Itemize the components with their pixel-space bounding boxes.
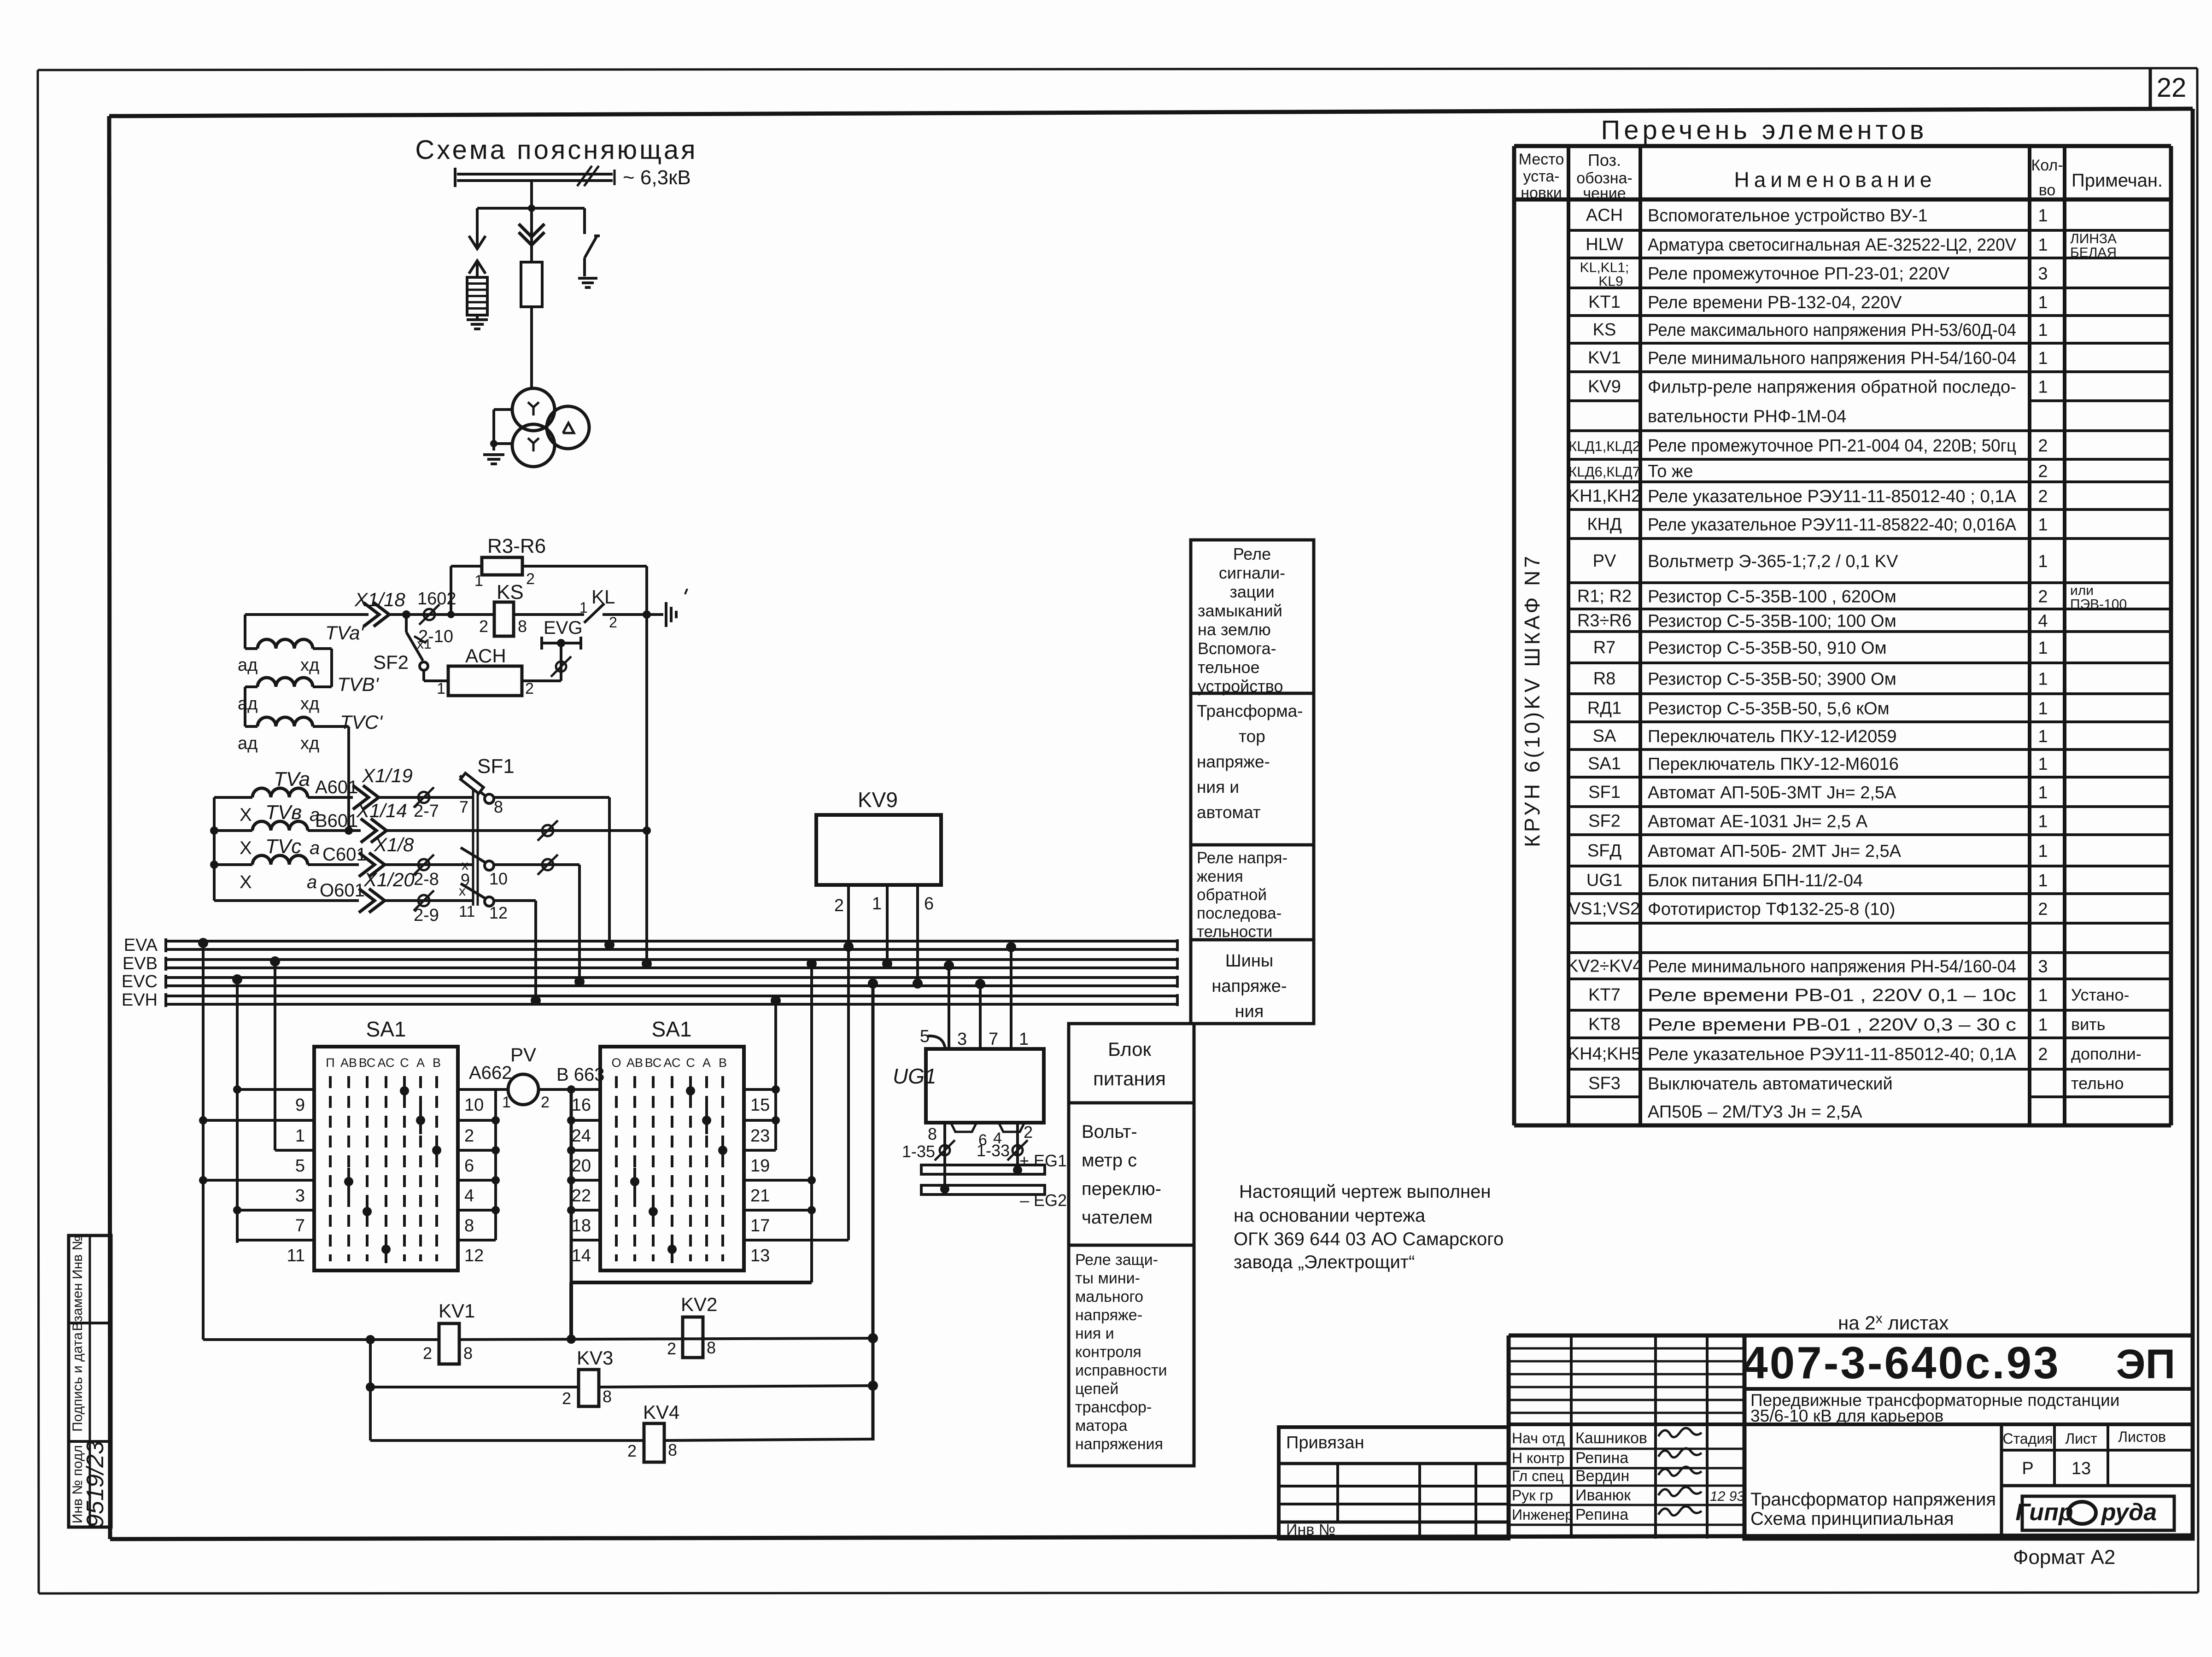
svg-text:вательности РНФ-1М-04: вательности РНФ-1М-04 [1648, 407, 1846, 427]
svg-text:1: 1 [2038, 699, 2048, 719]
svg-text:автомат: автомат [1197, 803, 1261, 822]
svg-text:KS: KS [1593, 320, 1616, 340]
svg-text:Резистор С-5-35В-50, 910 О: Резистор С-5-35В-50, 910 Ом [1648, 638, 1887, 658]
svg-text:х: х [459, 884, 466, 899]
SA1-1 left pins [287, 1095, 305, 1265]
svg-text:ПЭВ-100: ПЭВ-100 [2070, 597, 2127, 612]
svg-text:24: 24 [572, 1126, 591, 1146]
svg-text:8: 8 [603, 1387, 612, 1406]
svg-text:8: 8 [494, 797, 503, 816]
svg-text:Переключатель ПКУ-12-И2059: Переключатель ПКУ-12-И2059 [1648, 727, 1897, 746]
table: headers [1519, 151, 2163, 202]
svg-text:Кашников: Кашников [1575, 1429, 1647, 1447]
wire: transformer neutral to ground [490, 410, 512, 451]
ground (KL, right-facing) [647, 589, 687, 627]
title block: stage/sheet boxes [2001, 1424, 2193, 1539]
svg-text:SF1: SF1 [477, 755, 515, 778]
svg-text:Вспомогательное устройство ВУ: Вспомогательное устройство ВУ-1 [1648, 206, 1928, 226]
connector X1/18 [363, 603, 389, 626]
svg-text:контроля: контроля [1075, 1343, 1141, 1361]
wire: A662 to voltmeter [469, 1063, 512, 1089]
svg-text:KV1: KV1 [1588, 348, 1621, 368]
svg-text:С: С [686, 1056, 695, 1070]
svg-text:Реле максимального напряжения: Реле максимального напряжения РН-53/60Д-… [1648, 321, 2016, 340]
svg-text:23: 23 [750, 1126, 770, 1146]
wire: KV3 row [366, 1381, 878, 1392]
svg-text:21: 21 [750, 1186, 770, 1206]
svg-text:2-7: 2-7 [414, 802, 439, 821]
svg-text:1: 1 [872, 894, 882, 913]
svg-text:2: 2 [541, 1094, 550, 1111]
svg-text:П: П [326, 1056, 334, 1070]
svg-text:1: 1 [2038, 206, 2048, 226]
svg-text:Привязан: Привязан [1286, 1433, 1364, 1452]
svg-text:х1: х1 [417, 637, 432, 652]
svg-text:Трансформатор напряжения: Трансформатор напряжения [1750, 1489, 1996, 1510]
test point 1602 / 2-10 [417, 589, 456, 646]
svg-text:SA1: SA1 [652, 1017, 692, 1041]
svg-text:Реле минимального напряжения Р: Реле минимального напряжения РН-54/160-0… [1648, 349, 2016, 368]
svg-text:KV2: KV2 [681, 1294, 717, 1315]
node: EVA right drop (KV9 pin2 / SA1 pin13) [843, 885, 854, 1240]
svg-text:– EG2: – EG2 [1020, 1191, 1067, 1210]
resistor R3-R6 [474, 535, 546, 590]
table: frame and grid [1514, 146, 2171, 1125]
svg-text:Вердин: Вердин [1575, 1467, 1629, 1485]
svg-text:В: В [719, 1056, 727, 1070]
svg-text:PV: PV [510, 1044, 536, 1066]
busbar 6.3kV [455, 166, 614, 187]
bus EVH [122, 990, 1177, 1010]
svg-text:мального: мального [1075, 1288, 1143, 1306]
svg-text:12 93: 12 93 [1710, 1489, 1744, 1504]
title block: small grid top-left [1509, 1335, 1744, 1539]
svg-text:R1; R2: R1; R2 [1577, 587, 1632, 606]
svg-text:KL9: KL9 [1598, 274, 1623, 289]
svg-text:Переключатель ПКУ-12-М6016: Переключатель ПКУ-12-М6016 [1648, 755, 1899, 774]
svg-text:3: 3 [2038, 264, 2048, 284]
bus EVC [122, 972, 1177, 991]
svg-text:EVH: EVH [122, 990, 158, 1010]
disconnector arrows left branch [469, 208, 486, 277]
svg-text:ВС: ВС [645, 1056, 662, 1070]
svg-text:А601: А601 [315, 777, 358, 797]
svg-text:напряже-: напряже- [1211, 977, 1287, 996]
svg-text:2: 2 [2038, 462, 2048, 481]
winding TVc [214, 835, 367, 892]
bus EVA [124, 936, 1177, 955]
svg-text:Гл спец: Гл спец [1512, 1468, 1564, 1484]
svg-text:Рук гр: Рук гр [1512, 1487, 1553, 1504]
svg-text:АС: АС [378, 1056, 395, 1070]
label: на 2х листах [1838, 1311, 1949, 1334]
svg-text:1: 1 [2038, 670, 2048, 689]
svg-text:АП50Б – 2М/ТУ3 Jн = 2,5: АП50Б – 2М/ТУ3 Jн = 2,5А [1648, 1102, 1862, 1122]
svg-text:КНД: КНД [1587, 515, 1622, 534]
svg-text:дополни-: дополни- [2071, 1044, 2142, 1063]
svg-text:Блок питания БПН-11/2-04: Блок питания БПН-11/2-04 [1648, 871, 1863, 890]
svg-text:11: 11 [287, 1246, 305, 1265]
block Привязан [1279, 1427, 1509, 1539]
svg-text:Инв №: Инв № [1286, 1521, 1335, 1539]
node: KL output [643, 610, 651, 619]
node: EVA-SA1 drop [198, 938, 208, 1340]
wire: ACH to EVG with test point [522, 643, 571, 681]
svg-text:KV2÷KV4: KV2÷KV4 [1567, 957, 1643, 976]
svg-text:ад: ад [238, 694, 257, 714]
winding TVa [214, 768, 358, 825]
svg-text:чателем: чателем [1082, 1207, 1153, 1228]
svg-text:TVВ': TVВ' [337, 673, 380, 695]
node: SF2 tap [402, 610, 410, 619]
svg-text:Реле времени РВ-132-04, 220V: Реле времени РВ-132-04, 220V [1648, 293, 1902, 312]
svg-text:Фильтр-реле напряжения обратно: Фильтр-реле напряжения обратной последо- [1648, 378, 2016, 397]
svg-text:2: 2 [525, 680, 534, 697]
svg-text:О: О [611, 1056, 621, 1070]
svg-text:во: во [2039, 182, 2056, 199]
lamp EVG [542, 618, 582, 650]
svg-text:3: 3 [295, 1186, 305, 1206]
svg-text:на землю: на землю [1198, 620, 1271, 639]
test point 2-9 [414, 890, 439, 925]
svg-text:ния и: ния и [1075, 1325, 1114, 1342]
svg-text:1: 1 [2038, 727, 2048, 746]
svg-text:1: 1 [502, 1094, 511, 1111]
svg-text:Реле промежуточное РП-23-01;: Реле промежуточное РП-23-01; 220V [1648, 264, 1950, 284]
wire: SA1-1 pin11 [237, 1239, 314, 1241]
svg-text:KV1: KV1 [439, 1300, 475, 1322]
test point 2-7 [414, 787, 439, 821]
svg-text:EVA: EVA [124, 936, 158, 955]
wire: TVB'-TVC' link [244, 687, 246, 726]
svg-text:Реле указательное РЭУ11-11-85: Реле указательное РЭУ11-11-85012-40; 0,1… [1648, 1045, 2017, 1064]
svg-text:1: 1 [579, 599, 588, 616]
winding TVB' [238, 673, 380, 714]
svg-text:Схема поясняющая: Схема поясняющая [415, 135, 697, 165]
svg-text:9519/23: 9519/23 [82, 1441, 109, 1528]
wire: SA1-1 pin7 from EVC drop [233, 1206, 314, 1214]
svg-text:+ EG1: + EG1 [1019, 1151, 1067, 1170]
svg-text:13: 13 [2072, 1459, 2091, 1478]
svg-text:трансфор-: трансфор- [1075, 1399, 1152, 1416]
node: KV1 row branch [366, 1335, 375, 1440]
svg-text:SA: SA [1593, 726, 1616, 746]
svg-text:X: X [240, 838, 252, 858]
svg-text:Вольт-: Вольт- [1082, 1122, 1137, 1142]
svg-text:1: 1 [2038, 638, 2048, 658]
svg-text:чение: чение [1583, 185, 1626, 202]
svg-text:8: 8 [668, 1440, 677, 1459]
svg-text:6: 6 [924, 894, 934, 913]
note box: Реле защиты минимального напряжения [1069, 1245, 1194, 1466]
automat SF2 [373, 615, 432, 681]
svg-text:1: 1 [2038, 755, 2048, 774]
svg-text:Фототиристор ТФ132-25-8 (10): Фототиристор ТФ132-25-8 (10) [1648, 900, 1895, 919]
svg-text:10: 10 [489, 869, 508, 888]
svg-text:1: 1 [2038, 321, 2048, 340]
svg-text:~ 6,3кВ: ~ 6,3кВ [623, 166, 691, 189]
SA1-1 right pins [464, 1095, 484, 1265]
svg-text:R8: R8 [1593, 669, 1616, 689]
wire: TVC' drop to B line [345, 726, 353, 835]
connector chevrons middle branch [519, 208, 544, 262]
wire: UG1 pin7 to EVC [975, 979, 985, 1049]
wire: SA1-1 pin9 from EVC drop [233, 1085, 314, 1094]
svg-text:Реле напря-: Реле напря- [1197, 849, 1287, 867]
title block frame [1509, 1335, 2193, 1539]
node: A line joins EVA [604, 940, 614, 950]
svg-text:А: А [702, 1056, 711, 1070]
connector X1/14 [356, 800, 647, 843]
svg-text:Настоящий чертеж выполнен: Настоящий чертеж выполнен [1239, 1182, 1491, 1202]
svg-text:Репина: Репина [1575, 1506, 1628, 1523]
wire: UG1 pin3 to EVB [944, 960, 954, 1049]
svg-text:завода „Электрощит“: завода „Электрощит“ [1234, 1252, 1415, 1272]
svg-text:Стадия: Стадия [2002, 1430, 2053, 1447]
wire: C line to EVC [494, 855, 579, 982]
ground (right branch) [578, 278, 597, 287]
svg-text:6: 6 [464, 1156, 474, 1176]
svg-text:2: 2 [2038, 1045, 2048, 1064]
wire: KV9 pin1 to EVB [882, 885, 892, 969]
svg-text:17: 17 [750, 1216, 770, 1235]
contact SF1 7-8 [459, 794, 503, 816]
label ~ 6,3кВ [623, 166, 691, 189]
svg-text:А662: А662 [469, 1063, 512, 1083]
svg-text:напряже-: напряже- [1075, 1306, 1142, 1324]
svg-text:ЛИНЗА: ЛИНЗА [2070, 231, 2117, 246]
note box: Реле напряжения обратной последовательности [1191, 845, 1314, 941]
svg-text:на основании чертежа: на основании чертежа [1234, 1206, 1426, 1226]
svg-text:Реле времени РВ-01 , 220V: Реле времени РВ-01 , 220V 0,1 – 10с [1648, 986, 2016, 1005]
device ACH [424, 645, 534, 697]
table: rows [1567, 206, 2142, 1122]
node: O line joins EVH [531, 995, 541, 1006]
title block: drawing name [1750, 1489, 1996, 1529]
svg-text:исправности: исправности [1075, 1362, 1167, 1379]
svg-text:KV9: KV9 [1588, 377, 1621, 397]
svg-text:13: 13 [750, 1246, 770, 1265]
svg-text:То же: То же [1648, 462, 1693, 481]
svg-text:2: 2 [464, 1126, 474, 1146]
fuse FU [521, 262, 542, 307]
svg-text:Взамен Инв №: Взамен Инв № [70, 1235, 85, 1331]
svg-text:цепей: цепей [1075, 1380, 1118, 1398]
svg-text:8: 8 [463, 1344, 473, 1363]
wire: O line to EVH [494, 901, 536, 1001]
svg-text:4: 4 [464, 1186, 474, 1206]
svg-text:Р: Р [2022, 1459, 2033, 1478]
svg-text:PV: PV [1593, 551, 1616, 571]
svg-text:Лист: Лист [2065, 1430, 2097, 1447]
svg-text:Вспомога-: Вспомога- [1198, 639, 1276, 658]
node: EVH right drop [771, 995, 781, 1089]
note: drawing basis text [1234, 1182, 1504, 1272]
svg-text:Листов: Листов [2118, 1429, 2166, 1445]
svg-text:зации: зации [1229, 582, 1274, 601]
svg-text:KH4;KH5: KH4;KH5 [1568, 1044, 1641, 1064]
wire: KS to KL [514, 613, 584, 616]
svg-text:Реле: Реле [1233, 545, 1271, 563]
svg-text:3: 3 [2038, 957, 2048, 977]
svg-text:SF1: SF1 [1588, 783, 1621, 802]
voltmeter PV [502, 1044, 550, 1111]
svg-text:ЭП: ЭП [2116, 1341, 2176, 1388]
relay coil KS [479, 581, 527, 636]
svg-text:KV3: KV3 [577, 1347, 613, 1369]
svg-text:напряжения: напряжения [1075, 1435, 1163, 1453]
table: cabinet designation (rotated) [1520, 553, 1544, 847]
svg-text:тельное: тельное [1198, 658, 1260, 677]
test point 2-8 [414, 855, 439, 889]
svg-text:1-35: 1-35 [902, 1142, 935, 1161]
svg-text:метр с: метр с [1082, 1150, 1137, 1171]
node: junction on drop [528, 205, 535, 212]
svg-text:вить: вить [2071, 1015, 2105, 1034]
svg-text:KV4: KV4 [643, 1401, 679, 1423]
power supply UG1 [893, 1027, 1044, 1123]
note box: Трансформатор напряжения и автомат [1191, 693, 1314, 845]
svg-text:1: 1 [2038, 986, 2048, 1005]
svg-text:БЕЛАЯ: БЕЛАЯ [2070, 245, 2117, 260]
svg-text:14: 14 [572, 1246, 591, 1265]
svg-text:В 663: В 663 [556, 1065, 605, 1085]
svg-text:1: 1 [2038, 1015, 2048, 1035]
svg-text:2-8: 2-8 [414, 870, 439, 889]
svg-text:KL,KL1;: KL,KL1; [1580, 260, 1629, 275]
winding TVb [214, 801, 361, 858]
svg-text:19: 19 [750, 1156, 770, 1176]
svg-text:Автомат АЕ-1031 Jн= 2,5 А: Автомат АЕ-1031 Jн= 2,5 А [1648, 812, 1868, 831]
svg-text:Реле минимального напряжения Р: Реле минимального напряжения РН-54/160-0… [1648, 957, 2016, 977]
svg-text:1: 1 [2038, 871, 2048, 890]
wire: KV9 pin6 to EVC [913, 885, 923, 989]
svg-text:11: 11 [459, 903, 475, 920]
svg-text:Вольтметр Э-365-1;7,2 / 0,1 K: Вольтметр Э-365-1;7,2 / 0,1 KV [1648, 552, 1898, 571]
svg-text:КРУН 6(10)KV ШКАФ N7: КРУН 6(10)KV ШКАФ N7 [1520, 553, 1544, 847]
svg-text:хд: хд [300, 694, 319, 714]
left stamp column [69, 1235, 111, 1528]
svg-text:ACH: ACH [1586, 206, 1623, 225]
svg-text:1: 1 [2038, 378, 2048, 397]
svg-text:8: 8 [464, 1216, 474, 1235]
wire: common X neutral [210, 797, 365, 901]
wire: SA1-2 pins 21,17 to EVB drop [744, 1176, 816, 1214]
svg-text:ACH: ACH [465, 645, 506, 667]
test point on B line [538, 820, 558, 841]
svg-text:Перечень элементов: Перечень элементов [1601, 115, 1928, 145]
svg-text:Реле защи-: Реле защи- [1075, 1251, 1158, 1269]
svg-text:Резистор С-5-35В-100; 100 О: Резистор С-5-35В-100; 100 Ом [1648, 612, 1896, 631]
svg-text:Нач отд: Нач отд [1512, 1430, 1565, 1446]
svg-text:7: 7 [295, 1216, 305, 1235]
wire: SA1-1 pin5 from EVB drop [275, 1149, 314, 1152]
svg-text:уста-: уста- [1523, 168, 1559, 185]
ground (arrester) [467, 315, 488, 329]
relay KV3 [562, 1347, 613, 1408]
svg-text:АВ: АВ [340, 1056, 357, 1070]
svg-text:ния: ния [1235, 1002, 1264, 1021]
svg-text:переклю-: переклю- [1082, 1179, 1161, 1199]
transformer T 3-winding [512, 388, 589, 467]
title: Схема поясняющая [415, 135, 697, 165]
switch SA1 (block 2) [600, 1017, 744, 1271]
wire: busbar drop [530, 181, 533, 208]
svg-text:Арматура светосигнальная АЕ-32: Арматура светосигнальная АЕ-32522-Ц2, 22… [1648, 235, 2017, 255]
svg-text:KS: KS [497, 581, 524, 603]
wire: B line drop (KL vertical) to EVB [643, 615, 651, 964]
note box: Блок питания [1069, 1024, 1194, 1103]
svg-text:35/6-10 кВ для карьеров: 35/6-10 кВ для карьеров [1750, 1406, 1943, 1425]
svg-text:матора: матора [1075, 1417, 1128, 1435]
svg-text:Реле указательное РЭУ11-11-858: Реле указательное РЭУ11-11-85822-40; 0,0… [1648, 515, 2017, 535]
svg-text:KH1,KH2: KH1,KH2 [1568, 486, 1641, 506]
svg-text:руда: руда [2101, 1499, 2157, 1526]
svg-text:KT7: KT7 [1588, 985, 1621, 1005]
wire: TVa'-TVB' link [330, 649, 333, 687]
svg-text:Репина: Репина [1575, 1449, 1628, 1467]
svg-text:EVG: EVG [544, 618, 582, 638]
SA1-2 right pins [750, 1095, 770, 1265]
svg-text:Реле времени РВ-01 , 220V: Реле времени РВ-01 , 220V 0,3 – 30 с [1648, 1015, 2016, 1035]
switch SA1 (block 1) [314, 1017, 458, 1271]
svg-text:X: X [240, 805, 252, 825]
bar +EG1 [921, 1151, 1067, 1175]
svg-text:хд: хд [300, 734, 319, 753]
svg-text:SA1: SA1 [366, 1017, 406, 1041]
svg-text:1: 1 [2038, 235, 2048, 255]
svg-text:Поз.: Поз. [1588, 151, 1621, 170]
svg-text:22: 22 [2157, 73, 2187, 103]
svg-text:2: 2 [2038, 900, 2048, 919]
svg-text:обратной: обратной [1197, 886, 1267, 904]
wire: KV1 row [203, 1333, 878, 1343]
svg-text:8: 8 [707, 1338, 716, 1357]
svg-text:В: В [433, 1056, 441, 1070]
note box: Реле сигнализации [1191, 540, 1314, 696]
node: EVB right drop [807, 959, 817, 1282]
connector X1/20 [359, 869, 472, 913]
title block: project name [1744, 1391, 2193, 1425]
svg-text:9: 9 [295, 1095, 305, 1115]
svg-text:1: 1 [474, 572, 483, 590]
winding TVC' [238, 711, 383, 753]
wire: SA1-1 right ladder [458, 1089, 500, 1240]
wire: SA1-1 pin1 from EVA drop [199, 1116, 314, 1124]
svg-text:SF3: SF3 [1588, 1074, 1621, 1093]
wire: PV to B663 [538, 1065, 605, 1089]
SA1-2 left pins [572, 1095, 591, 1265]
wire: SA1-1 pin3 from EVA drop [199, 1176, 314, 1184]
svg-text:Подпись и дата: Подпись и дата [70, 1332, 85, 1432]
svg-text:1: 1 [295, 1126, 305, 1146]
svg-text:X1/20: X1/20 [363, 869, 415, 890]
svg-text:Место: Место [1519, 151, 1564, 168]
signatures (handwritten squiggles) [1658, 1428, 1702, 1516]
svg-text:1: 1 [2038, 783, 2048, 802]
label X1/18 [354, 589, 405, 610]
svg-text:Шины: Шины [1225, 951, 1273, 971]
svg-text:2: 2 [526, 570, 535, 588]
svg-text:7: 7 [459, 797, 468, 816]
connector X1/8 [359, 834, 472, 877]
wire: UG1 pin1 to EVA [1006, 942, 1016, 1049]
surge arrester FV [467, 277, 487, 315]
svg-text:TVС': TVС' [340, 711, 383, 733]
svg-text:2-9: 2-9 [414, 906, 439, 925]
svg-text:12: 12 [464, 1246, 484, 1265]
svg-text:жения: жения [1197, 867, 1243, 885]
